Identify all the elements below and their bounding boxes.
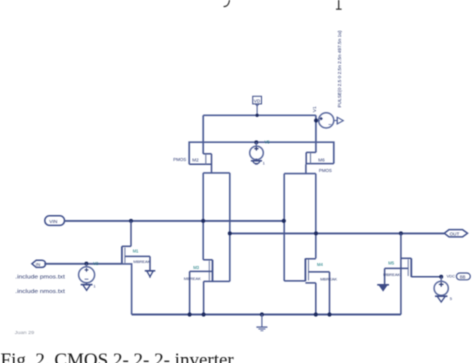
svg-text:PMOS: PMOS: [319, 168, 332, 173]
svg-text:Juan 29: Juan 29: [15, 330, 35, 335]
node junction bottom rail / M4 bulk: [327, 312, 331, 316]
svg-text:V2: V2: [93, 261, 99, 266]
svg-text:M5: M5: [388, 261, 394, 266]
node junction bottom rail / M3 source: [202, 312, 206, 316]
port OUT oval: [444, 230, 467, 237]
caption fragment top (stem of p): [336, 0, 342, 9]
ground under V5: [251, 159, 262, 164]
wire bottom rail: [132, 313, 401, 315]
node junction IN rail end / right box: [282, 219, 286, 223]
node junction V4 gate wire: [439, 275, 443, 279]
wire top rail VD: [203, 114, 316, 116]
wire M1 source corner to bottom rail: [122, 264, 132, 315]
svg-text:M2: M2: [192, 158, 199, 163]
voltage source V1: [318, 113, 334, 128]
wire IN rail: [65, 220, 284, 222]
svg-text:.include nmos.txt: .include nmos.txt: [15, 289, 65, 295]
wire VD stem: [256, 106, 258, 115]
wire OUT net: [230, 232, 444, 234]
node junction IN rail / left box: [201, 219, 205, 223]
ground under V4: [435, 295, 447, 302]
svg-text:M1: M1: [133, 249, 139, 254]
svg-text:MBREAK: MBREAK: [383, 272, 400, 277]
port VIN oval: [45, 216, 65, 226]
svg-text:VIN: VIN: [49, 219, 58, 225]
svg-text:IN: IN: [36, 262, 40, 267]
svg-text:MBREAK: MBREAK: [184, 276, 201, 281]
svg-text:Fig. 2. CMOS 2- 2- 2- inverter: Fig. 2. CMOS 2- 2- 2- inverter: [1, 350, 235, 363]
node junction bottom rail / M4 source: [314, 312, 318, 316]
svg-text:M6: M6: [318, 158, 325, 163]
svg-text:BB: BB: [460, 274, 466, 279]
node junction at V1 lead: [314, 118, 318, 122]
svg-text:V1: V1: [312, 106, 318, 112]
wire top rail right bend down to V1: [315, 115, 317, 152]
wire right stack box: [284, 174, 316, 281]
svg-text:VD: VD: [254, 98, 261, 103]
svg-text:V5: V5: [265, 140, 271, 145]
transistor M1 (NMOS): [122, 221, 150, 271]
wire IN to M1 gate: [44, 263, 122, 265]
node junction bottom rail / M3 gate: [188, 312, 192, 316]
ground under M5: [377, 285, 389, 291]
node junction OUT / left box: [228, 231, 232, 235]
node junction bottom rail / ground: [260, 312, 264, 316]
net label VD: [253, 96, 262, 106]
svg-text:VDC: VDC: [447, 274, 456, 279]
svg-text:M3: M3: [193, 265, 199, 270]
wire VB rail: [189, 142, 334, 164]
wire left stack box: [203, 173, 230, 282]
V1 polarity arrow: [334, 117, 343, 124]
svg-text:M4: M4: [317, 262, 323, 267]
transistor M2 (PMOS): [189, 115, 211, 173]
svg-text:MBREAK: MBREAK: [320, 276, 337, 281]
ground under M1 source: [145, 271, 156, 278]
svg-text:OUT: OUT: [450, 231, 460, 236]
node junction on top rail at VD stem: [255, 114, 258, 117]
ground at bottom rail: [256, 315, 267, 331]
wire V4 stem: [440, 277, 442, 282]
node junction IN wire / V2: [84, 262, 88, 266]
node junction VB at V5: [254, 140, 258, 144]
transistor M5 (NMOS, mirrored): [385, 233, 442, 314]
transistor M6 (PMOS): [306, 152, 334, 173]
svg-text:PULSE(0 2.5 0 2.5n 2.5n 497.5n: PULSE(0 2.5 0 2.5n 2.5n 497.5n 1u): [337, 30, 342, 107]
voltage source V4: [434, 281, 448, 295]
svg-text:.include pmos.txt: .include pmos.txt: [15, 274, 65, 280]
caption fragment top (descender of y): [224, 0, 230, 7]
svg-text:PMOS: PMOS: [173, 157, 186, 162]
port IN label: [32, 260, 46, 267]
transistor M3 (NMOS): [190, 260, 230, 315]
voltage source V2: [79, 264, 95, 283]
node junction OUT / M5 drain: [399, 231, 403, 235]
node junction IN rail / M1 drain: [129, 219, 133, 223]
voltage source V5: [250, 142, 264, 159]
node junction OUT / right box: [314, 231, 318, 235]
ground under V2: [81, 283, 93, 291]
port label BB: [456, 273, 470, 280]
transistor M4 (NMOS): [284, 258, 329, 314]
svg-text:MBREAK: MBREAK: [133, 259, 150, 264]
